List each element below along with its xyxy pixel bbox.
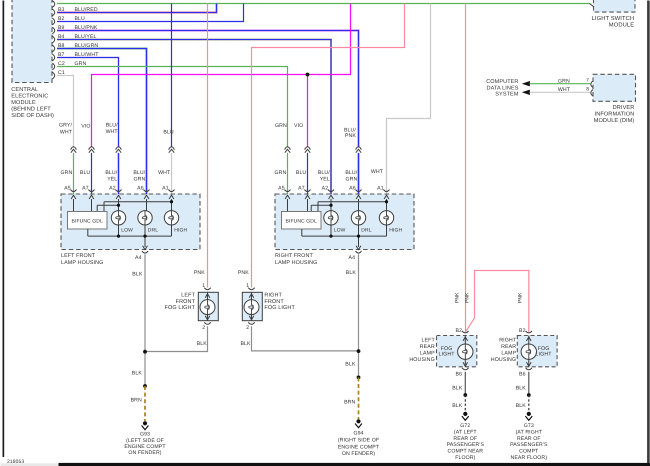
label Light Switch Module xyxy=(592,15,635,29)
wire BRN to ground G94 xyxy=(344,377,358,419)
module Right rear lamp housing xyxy=(517,336,557,367)
svg-text:PASSENGER'S: PASSENGER'S xyxy=(510,442,548,448)
lamp HIGH bulb Right Front xyxy=(379,211,402,234)
wire BLU/YEL below connector to left lamp A2 xyxy=(105,153,118,194)
svg-text:B6: B6 xyxy=(456,371,463,377)
svg-text:LAMP HOUSING: LAMP HOUSING xyxy=(61,260,103,266)
svg-text:FOG LIGHT: FOG LIGHT xyxy=(264,305,295,311)
svg-text:ENGINE COMPT: ENGINE COMPT xyxy=(338,444,380,450)
label Driver Information Module xyxy=(594,105,635,124)
svg-text:(AT LEFT: (AT LEFT xyxy=(454,429,478,435)
label ground G73 location xyxy=(510,429,548,461)
label Right Front Lamp xyxy=(275,253,317,266)
label VIO right xyxy=(294,123,303,129)
wire C1 GRY/WHT to left lamp A5 xyxy=(57,76,73,148)
svg-text:BLU/: BLU/ xyxy=(345,170,357,176)
svg-text:NEAR FLOOR): NEAR FLOOR) xyxy=(511,455,548,461)
inline connector A1 left xyxy=(169,147,175,153)
pin A1 Right Front lamp housing xyxy=(377,185,389,199)
svg-text:2: 2 xyxy=(202,325,205,331)
label PNK Right fog xyxy=(238,270,249,276)
svg-text:RIGHT: RIGHT xyxy=(264,293,282,299)
CEM location label xyxy=(11,87,54,119)
svg-text:FOG LIGHT: FOG LIGHT xyxy=(165,305,196,311)
pin 7 DIM xyxy=(586,78,593,88)
svg-text:FRONT: FRONT xyxy=(176,299,196,305)
svg-text:BLU/YEL: BLU/YEL xyxy=(75,34,97,40)
svg-text:BLK: BLK xyxy=(346,270,357,276)
svg-text:DRL: DRL xyxy=(361,227,371,233)
CEM pin B7 xyxy=(52,52,64,61)
wire WHT DIM pin 8 xyxy=(530,87,591,93)
svg-text:BLU/: BLU/ xyxy=(133,170,145,176)
pin A6 Right Front lamp housing xyxy=(349,185,361,199)
svg-text:RIGHT FRONT: RIGHT FRONT xyxy=(275,253,313,259)
svg-text:WHT: WHT xyxy=(158,170,171,176)
module Left rear lamp housing xyxy=(437,336,477,367)
svg-text:GRN: GRN xyxy=(75,61,87,67)
svg-text:2: 2 xyxy=(246,325,249,331)
CEM pin B2 xyxy=(52,16,64,25)
svg-text:BLK: BLK xyxy=(197,341,208,347)
pin 2 Right fog light xyxy=(246,322,255,331)
svg-text:BLK: BLK xyxy=(516,385,527,391)
svg-text:FLOOR): FLOOR) xyxy=(455,455,475,461)
label VIO left xyxy=(81,124,90,130)
CEM pin B4 xyxy=(52,34,64,43)
wire BLK right fog light pin 2 to ground splice xyxy=(240,326,358,351)
svg-text:BLU/: BLU/ xyxy=(106,122,118,128)
svg-text:A4: A4 xyxy=(349,255,356,261)
wire B4 BLU/YEL to right lamp A2 xyxy=(57,34,331,194)
label ground G93 location xyxy=(124,438,166,456)
label Left front fog light xyxy=(165,293,196,311)
svg-text:LEFT: LEFT xyxy=(181,293,195,299)
svg-text:HIGH: HIGH xyxy=(174,227,187,233)
CEM pin B8 xyxy=(52,43,64,52)
svg-text:MODULE (DIM): MODULE (DIM) xyxy=(594,117,635,124)
wire internal Left Front housing pins to bi-function module and bulbs xyxy=(74,199,172,212)
label GRN above connector xyxy=(275,123,287,129)
svg-text:YEL: YEL xyxy=(107,176,117,182)
svg-text:PNK: PNK xyxy=(345,133,356,139)
junction Right Front housing HIGH feed xyxy=(385,200,388,203)
pin B6 Right rear lamp xyxy=(519,368,532,378)
wire BLK Right rear fog to splice xyxy=(516,372,529,395)
svg-text:LOW: LOW xyxy=(334,227,346,233)
svg-text:(BEHIND LEFT: (BEHIND LEFT xyxy=(11,106,51,113)
svg-text:SYSTEM: SYSTEM xyxy=(495,92,519,98)
svg-text:GRN: GRN xyxy=(558,79,570,85)
svg-text:BRN: BRN xyxy=(131,398,142,404)
svg-text:INFORMATION: INFORMATION xyxy=(595,112,635,118)
svg-text:BLU/GRN: BLU/GRN xyxy=(75,43,99,49)
svg-text:BLU/PNK: BLU/PNK xyxy=(75,25,98,31)
svg-text:ON FENDER): ON FENDER) xyxy=(342,451,375,457)
svg-text:BLK: BLK xyxy=(345,361,356,367)
wire B9 BLU/PNK to right lamp A6 xyxy=(57,25,358,147)
pin 1 Right fog light xyxy=(246,283,255,290)
pin 8 DIM xyxy=(586,87,593,96)
inline connector C1/A5 xyxy=(71,147,77,153)
svg-text:MODULE: MODULE xyxy=(609,21,634,28)
svg-text:BRN: BRN xyxy=(344,400,355,406)
module Light Switch Module xyxy=(594,0,636,12)
wire GRN DIM pin 7 xyxy=(530,79,591,85)
label BLU/PNK above connector xyxy=(344,128,356,140)
svg-text:BLU: BLU xyxy=(163,130,174,136)
label BLU/YEL right lamp A2 xyxy=(318,170,330,183)
wire B7 BLU/WHT to left lamp A2 xyxy=(57,52,118,147)
svg-text:FRONT: FRONT xyxy=(264,299,284,305)
svg-text:BIFUNC GDL: BIFUNC GDL xyxy=(72,219,103,225)
svg-text:(AT RIGHT: (AT RIGHT xyxy=(516,429,543,435)
pin 2 Left fog light xyxy=(202,322,211,331)
svg-text:GRN: GRN xyxy=(275,123,287,129)
label PNK Left fog xyxy=(194,270,205,276)
svg-text:A2: A2 xyxy=(109,185,116,191)
svg-text:VIO: VIO xyxy=(81,124,90,130)
wire PNK from top to left front fog light pin 1 xyxy=(207,4,209,288)
wire internal ground bus Right Front housing xyxy=(302,225,387,247)
wire BLK dashed to ground G72 xyxy=(452,395,465,412)
junction Left rear BLK splice xyxy=(463,393,467,397)
svg-text:BLU/WHT: BLU/WHT xyxy=(75,52,100,58)
pin 1 Left fog light xyxy=(202,283,211,290)
wire internal ground bus Left Front housing xyxy=(88,225,172,247)
svg-text:BLU/: BLU/ xyxy=(105,170,117,176)
pin A4 Right Front lamp housing xyxy=(349,246,362,262)
svg-text:BLU: BLU xyxy=(296,170,307,176)
arrow data line WHT xyxy=(522,90,530,95)
svg-text:BLK: BLK xyxy=(132,370,143,376)
lamp rear fog bulb Left xyxy=(458,336,473,367)
svg-text:BLK: BLK xyxy=(516,403,527,409)
svg-text:A5: A5 xyxy=(278,185,285,191)
component Left front fog light xyxy=(198,292,218,321)
svg-text:WHT: WHT xyxy=(60,130,73,136)
wire BLU below connector to left lamp A7 xyxy=(80,153,92,194)
svg-text:GRN: GRN xyxy=(345,176,357,182)
svg-text:LIGHT: LIGHT xyxy=(536,352,553,358)
svg-text:BLK: BLK xyxy=(132,271,143,277)
pin B6 Left rear lamp xyxy=(456,368,469,378)
svg-text:8: 8 xyxy=(586,87,589,93)
svg-text:A1: A1 xyxy=(377,185,384,191)
wire GRN from CEM top pin to light switch module xyxy=(57,3,590,5)
lamp LOW bulb Left Front xyxy=(111,211,133,234)
svg-text:LAMP: LAMP xyxy=(420,351,435,357)
svg-text:HOUSING: HOUSING xyxy=(491,357,516,363)
CEM pin C2 xyxy=(52,61,65,70)
svg-text:REAR: REAR xyxy=(501,344,516,350)
pin A2 Left Front lamp housing xyxy=(109,185,121,199)
svg-text:G73: G73 xyxy=(524,423,534,429)
svg-text:A7: A7 xyxy=(298,185,305,191)
svg-text:BLU: BLU xyxy=(75,16,86,22)
label Left Rear Lamp Housing xyxy=(409,337,435,363)
svg-text:BLU: BLU xyxy=(80,170,91,176)
svg-text:WHT: WHT xyxy=(371,169,384,175)
ground G73 xyxy=(524,412,534,429)
arrow data line GRN xyxy=(522,81,530,86)
svg-text:BIFUNC GDL: BIFUNC GDL xyxy=(286,219,317,225)
lamp rear fog bulb Right xyxy=(521,336,536,367)
svg-text:WHT: WHT xyxy=(106,129,119,135)
pin A5 Right Front lamp housing xyxy=(278,185,290,199)
label BLU/WHT above connector xyxy=(106,122,119,135)
CEM pin B3 xyxy=(52,7,64,16)
wire GRN below connector to right lamp A5 xyxy=(274,153,287,194)
svg-text:A7: A7 xyxy=(82,185,89,191)
pin Light Switch Module (GRN wire) xyxy=(590,4,594,7)
bi-function gas discharge module Left Front xyxy=(68,212,108,230)
ground G93 xyxy=(140,421,150,437)
svg-text:REAR: REAR xyxy=(420,344,435,350)
lamp HIGH bulb Left Front xyxy=(164,211,187,234)
svg-text:COMPT: COMPT xyxy=(519,449,539,455)
label FOG LIGHT Left rear xyxy=(439,346,456,358)
svg-text:MODULE: MODULE xyxy=(11,100,36,106)
svg-text:A6: A6 xyxy=(349,185,356,191)
pin A5 Left Front lamp housing xyxy=(64,185,76,199)
wire BRN to ground G93 xyxy=(131,386,145,421)
label BLU/GRN left lamp A6 xyxy=(133,170,145,183)
svg-text:7: 7 xyxy=(586,78,589,84)
junction Left Front housing HIGH feed xyxy=(170,200,173,203)
bi-function gas discharge module Right Front xyxy=(282,212,322,230)
svg-text:BLU/: BLU/ xyxy=(318,170,330,176)
svg-text:PNK: PNK xyxy=(194,270,205,276)
junction Right Front housing LOW feed xyxy=(329,204,332,207)
ground G94 xyxy=(353,419,363,437)
pin B2 Right rear lamp xyxy=(519,328,532,334)
ground G72 xyxy=(460,412,470,429)
junction bus at DRL Left Front xyxy=(143,235,146,238)
pin A7 Left Front lamp housing xyxy=(82,185,94,199)
svg-text:GRN: GRN xyxy=(133,176,145,182)
pin A7 Right Front lamp housing xyxy=(298,185,310,199)
svg-text:COMPUTER: COMPUTER xyxy=(486,79,518,85)
svg-text:G72: G72 xyxy=(460,423,470,429)
CEM pin B9 xyxy=(52,25,64,34)
junction bus at LOW Left Front xyxy=(117,235,120,238)
pin A6 Left Front lamp housing xyxy=(137,185,149,199)
wire BLK dashed to ground G73 xyxy=(516,395,529,412)
svg-text:A5: A5 xyxy=(64,185,71,191)
wire B3 BLU/RED xyxy=(57,4,216,13)
wire internal Right Front housing pins to bi-function module and bulbs xyxy=(288,199,387,212)
wire GRN below connector to left lamp A5 xyxy=(60,153,73,194)
svg-text:(LEFT SIDE OF: (LEFT SIDE OF xyxy=(126,438,164,444)
inline connector A6 right xyxy=(356,147,362,153)
svg-text:LEFT: LEFT xyxy=(421,337,435,343)
svg-text:LIGHT: LIGHT xyxy=(439,352,456,358)
svg-text:GRY/: GRY/ xyxy=(59,122,72,128)
svg-text:DRIVER: DRIVER xyxy=(613,105,635,111)
svg-text:HIGH: HIGH xyxy=(389,227,402,233)
label PNK vertical 3 xyxy=(517,292,523,303)
pin A4 Left Front lamp housing xyxy=(135,246,148,262)
wire BLU/GRN below connector to right lamp A6 xyxy=(345,153,358,194)
svg-text:REAR OF: REAR OF xyxy=(453,436,477,442)
lamp DRL bulb Left Front xyxy=(138,211,158,234)
svg-text:218053: 218053 xyxy=(7,459,24,465)
label Left Front Lamp xyxy=(61,253,103,266)
inline connector VIO/A7 left xyxy=(89,147,95,153)
svg-text:LIGHT SWITCH: LIGHT SWITCH xyxy=(592,15,635,22)
svg-text:DATA LINES: DATA LINES xyxy=(487,85,519,91)
svg-text:LEFT FRONT: LEFT FRONT xyxy=(61,253,96,259)
label Right front fog light xyxy=(264,293,295,311)
svg-text:PNK: PNK xyxy=(517,292,523,303)
wire PNK from top to right front fog light pin 1 xyxy=(252,4,405,288)
svg-text:A4: A4 xyxy=(135,255,142,261)
wire BLK Left rear fog to splice xyxy=(452,372,465,395)
label WHT right lamp xyxy=(371,169,384,175)
label GRY/WHT above connector xyxy=(59,122,73,135)
junction VIO splice xyxy=(306,73,310,77)
wire BLU from top to left lamp A1 xyxy=(163,4,174,148)
node Computer Data Lines System xyxy=(486,79,519,97)
svg-text:LOW: LOW xyxy=(121,227,133,233)
label FOG LIGHT Right rear xyxy=(536,346,553,358)
module Left Front Lamp (housing box) xyxy=(61,194,200,250)
svg-text:G94: G94 xyxy=(353,431,363,437)
svg-text:GRN: GRN xyxy=(274,170,286,176)
pin A1 Left Front lamp housing xyxy=(162,185,174,199)
pin A2 Right Front lamp housing xyxy=(322,185,334,199)
svg-text:DRL: DRL xyxy=(148,227,158,233)
svg-text:PNK: PNK xyxy=(455,292,461,303)
module U1 Central Electronic Module (CEM) xyxy=(12,0,52,83)
svg-text:PASSENGER'S: PASSENGER'S xyxy=(447,442,485,448)
svg-text:VIO: VIO xyxy=(294,123,303,129)
svg-text:B2: B2 xyxy=(456,328,463,334)
junction bus at DRL Right Front xyxy=(357,235,360,238)
label Right Rear Lamp Housing xyxy=(491,337,517,363)
component Right front fog light xyxy=(242,292,262,321)
module Right Front Lamp (housing box) xyxy=(275,194,414,250)
wire WHT from top to right lamp A1 xyxy=(387,4,431,195)
svg-text:WHT: WHT xyxy=(558,87,571,93)
wire BLK left fog light pin 2 to ground splice xyxy=(145,326,208,351)
label ground G72 location xyxy=(447,429,485,461)
svg-text:HOUSING: HOUSING xyxy=(409,357,434,363)
lamp LOW bulb Right Front xyxy=(324,211,346,234)
junction Left Front housing LOW feed xyxy=(117,204,120,207)
wire B2 BLU xyxy=(57,4,243,22)
svg-text:ON FENDER): ON FENDER) xyxy=(128,450,161,456)
svg-text:GRN: GRN xyxy=(60,170,72,176)
svg-text:PNK: PNK xyxy=(465,292,471,303)
wire BLK right lamp A4 down xyxy=(345,254,358,377)
svg-text:RIGHT: RIGHT xyxy=(499,337,517,343)
junction right BLK/BRN splice xyxy=(357,376,361,380)
svg-text:BLK: BLK xyxy=(240,341,251,347)
inline connector VIO/A7 right xyxy=(305,147,311,153)
wire WHT below connector to left lamp A1 xyxy=(158,153,171,194)
svg-text:SIDE OF DASH): SIDE OF DASH) xyxy=(11,112,54,119)
label PNK vertical 2 xyxy=(465,292,471,303)
svg-text:A1: A1 xyxy=(162,185,169,191)
svg-text:ELECTRONIC: ELECTRONIC xyxy=(11,94,48,100)
pin B2 Left rear lamp xyxy=(456,328,469,334)
lamp DRL bulb Right Front xyxy=(351,211,371,234)
svg-text:B6: B6 xyxy=(519,371,526,377)
svg-text:CENTRAL: CENTRAL xyxy=(11,87,38,93)
svg-text:A2: A2 xyxy=(322,185,329,191)
svg-text:BLU/RED: BLU/RED xyxy=(75,7,98,13)
junction left BLK/BRN splice xyxy=(143,384,147,388)
CEM pin (top, to light switch module) xyxy=(52,1,54,8)
svg-text:G93: G93 xyxy=(140,431,150,437)
wire VIO from top to A7 pins of both lamps xyxy=(92,4,351,148)
junction right BLK splice with fog light xyxy=(357,349,361,353)
wire B8 BLU/GRN to left lamp A6 xyxy=(57,43,146,194)
inline connector A2 left xyxy=(116,147,122,153)
svg-text:A6: A6 xyxy=(137,185,144,191)
svg-text:REAR OF: REAR OF xyxy=(517,436,541,442)
module U2 Driver Information Module (DIM) xyxy=(593,74,636,101)
label ground G94 location xyxy=(338,438,380,457)
svg-text:ENGINE COMPT: ENGINE COMPT xyxy=(124,444,166,450)
label PNK vertical 1 xyxy=(455,292,461,303)
inline connector C2/A5 right xyxy=(285,147,291,153)
svg-text:BLK: BLK xyxy=(452,385,463,391)
wire C2 GRN to right lamp A5 xyxy=(57,61,287,147)
CEM pin C1 xyxy=(52,70,65,79)
svg-text:LAMP: LAMP xyxy=(501,351,516,357)
wire BLK left lamp A4 down xyxy=(132,254,145,386)
svg-text:COMPT NEAR: COMPT NEAR xyxy=(448,449,484,455)
junction left BLK splice with fog light xyxy=(143,350,147,354)
wire BLU below connector to right lamp A7 xyxy=(296,153,308,194)
junction Right rear BLK splice xyxy=(527,393,531,397)
svg-text:LAMP HOUSING: LAMP HOUSING xyxy=(275,260,317,266)
svg-text:BLK: BLK xyxy=(452,403,463,409)
svg-text:YEL: YEL xyxy=(320,176,330,182)
svg-text:B2: B2 xyxy=(519,328,526,334)
svg-text:PNK: PNK xyxy=(238,270,249,276)
junction bus at LOW Right Front xyxy=(329,235,332,238)
wire PNK from top to rear fog lights xyxy=(466,4,529,333)
svg-text:(RIGHT SIDE OF: (RIGHT SIDE OF xyxy=(338,438,379,444)
